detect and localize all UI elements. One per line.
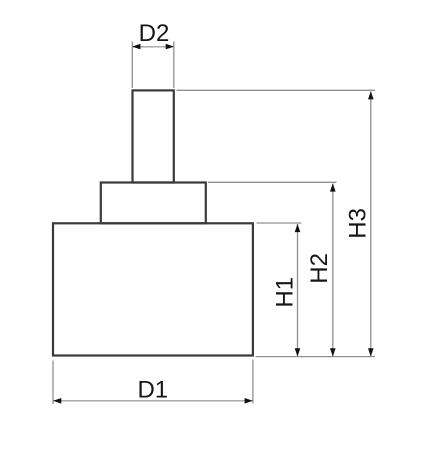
dimension line H1 — [297, 224, 299, 356]
arrow D1 left — [53, 398, 61, 404]
arrow D2 left — [132, 44, 140, 50]
dimension line H3 — [370, 92, 372, 357]
arrow H3 bottom — [368, 348, 374, 356]
extension line bottom baseline — [256, 356, 376, 358]
extension line stud top (for H3) — [177, 89, 376, 91]
arrow D2 right — [166, 44, 174, 50]
extension line D2 right — [173, 42, 175, 89]
arrow H3 top — [368, 91, 374, 99]
arrow H2 top — [330, 183, 336, 191]
body (magnet cylinder side view) — [53, 223, 253, 355]
extension line body top (for H1) — [257, 222, 302, 224]
svg-text:H1: H1 — [272, 277, 299, 308]
extension line D2 left — [131, 42, 133, 89]
arrow H1 bottom — [295, 348, 301, 356]
svg-text:D1: D1 — [137, 377, 168, 404]
stud (threaded pin) — [133, 90, 174, 182]
svg-text:H2: H2 — [306, 253, 333, 284]
flange (step) — [101, 183, 206, 224]
dimension line D2 — [133, 46, 174, 48]
dimension line H2 — [332, 184, 334, 357]
extension line flange top (for H2) — [208, 181, 337, 183]
extension line D1 left — [52, 361, 54, 405]
svg-text:H3: H3 — [345, 208, 372, 239]
arrow D1 right — [245, 398, 253, 404]
extension line D1 right — [252, 360, 254, 404]
svg-text:D2: D2 — [139, 20, 170, 47]
dimension line D1 — [53, 400, 253, 402]
arrow H1 top — [295, 224, 301, 232]
arrow H2 bottom — [330, 348, 336, 356]
